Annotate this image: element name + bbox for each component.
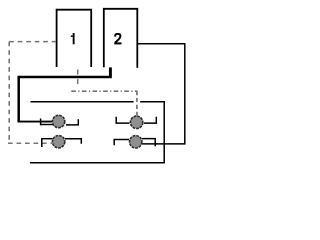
fuse box 1 [57,10,92,67]
dashed control wire to contact 2 [8,142,52,144]
relay plate box top, right and bottom edges [30,102,164,163]
contact 2 pin [52,136,64,148]
contact 1 right bracket [66,119,78,125]
fuse 1 label [71,33,75,44]
dash-dot wire to right [71,90,137,92]
contact 2 left bracket [42,138,53,140]
fuse 2 label [114,34,121,44]
thick supply wire horizontal [19,76,112,79]
dashed control wire from left border to fuse 1 side [9,41,56,43]
contact 2 right bracket [65,139,81,144]
wire to contact 1 [18,121,53,123]
contact 1 socket tick [40,119,42,126]
contact 3 right bracket [144,117,156,123]
wire from fuse 2 right side via outer right rail to contact 4 [137,44,185,144]
contact 1 pin [52,115,64,127]
dashed wire from fuse 1 bottom [77,70,79,89]
contact 4 pin [130,136,142,148]
fuse box 2 [104,9,138,68]
dashed wire down to contact 3 [136,91,138,116]
relay plate box top edge, left of dashed crossing [30,101,133,103]
dashed control wire vertical at left border [8,42,10,141]
contact 1 left bracket [41,124,53,126]
contact 4 right bracket [142,139,155,147]
thick supply wire rising into fuse 2 bottom [109,67,112,77]
contact 3 pin [130,116,142,128]
contact 2 socket tick [41,138,43,147]
contact 4 left bracket [114,140,129,146]
contact 3 left bracket [116,117,129,123]
thick supply wire vertical at left [17,76,20,122]
